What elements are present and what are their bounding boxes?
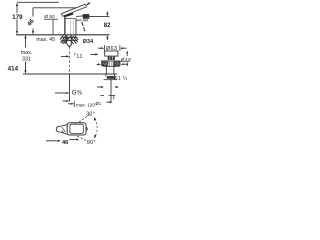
svg-text:max. 45: max. 45 bbox=[36, 37, 55, 43]
popup flange bbox=[101, 60, 120, 62]
lever handle bbox=[61, 4, 86, 16]
node dim D63 bbox=[103, 45, 105, 51]
dashed pop-up rod bbox=[69, 47, 71, 74]
spout bbox=[76, 15, 83, 18]
svg-text:Ø34: Ø34 bbox=[83, 39, 95, 45]
dashed lever 30 deg bbox=[79, 114, 90, 122]
plan view body bbox=[56, 126, 61, 132]
pipe dim arrows bbox=[97, 86, 101, 88]
svg-text:G1 ¼: G1 ¼ bbox=[114, 76, 128, 82]
wire deck line bbox=[16, 34, 110, 36]
small tick marks near pipe bbox=[100, 95, 104, 97]
svg-text:30°: 30° bbox=[86, 112, 95, 118]
fitting arrow 1 bbox=[55, 92, 66, 94]
popup knob bbox=[105, 51, 118, 56]
svg-text:179: 179 bbox=[12, 15, 23, 21]
svg-text:46: 46 bbox=[62, 140, 68, 146]
svg-text:G⅜: G⅜ bbox=[72, 90, 83, 97]
supply fitting vertical bbox=[69, 74, 71, 102]
svg-text:82: 82 bbox=[104, 22, 111, 29]
drain pipe bbox=[110, 79, 112, 102]
fitting arrow 2 bbox=[63, 100, 67, 102]
node dim 46 diagonal bbox=[33, 7, 76, 9]
pipe bottom leader arrow bbox=[107, 101, 110, 103]
svg-text:Ø46: Ø46 bbox=[121, 57, 132, 63]
flange dim arrows bbox=[97, 63, 99, 65]
node dim 82 bbox=[106, 11, 108, 13]
dashed lever 90 deg bbox=[77, 136, 87, 141]
svg-text:331: 331 bbox=[22, 56, 31, 62]
node dim 179 bbox=[16, 6, 18, 14]
svg-text:46: 46 bbox=[26, 17, 36, 27]
wire spout ref line bbox=[90, 16, 110, 18]
wire top extension line bbox=[17, 1, 59, 3]
node label D46 vertical dim bbox=[126, 51, 128, 54]
svg-text:11: 11 bbox=[76, 54, 83, 60]
svg-text:90°: 90° bbox=[87, 140, 96, 146]
node dim max331 414 bbox=[25, 35, 27, 47]
lever tip arrow bbox=[87, 3, 90, 6]
node dim 11 bbox=[61, 55, 67, 57]
water stream dashes bbox=[82, 22, 85, 32]
svg-text:max. 120°: max. 120° bbox=[76, 102, 97, 107]
swing arc bbox=[95, 118, 98, 137]
node dim 46 bottom bbox=[46, 140, 58, 142]
svg-text:max.: max. bbox=[21, 50, 33, 56]
wire hose end line bbox=[23, 73, 117, 75]
shank hatch block bbox=[60, 35, 78, 47]
popup tailpiece bbox=[105, 66, 107, 73]
faucet body bbox=[64, 13, 74, 18]
svg-text:414: 414 bbox=[8, 65, 19, 72]
plan dim leader bbox=[68, 103, 71, 105]
